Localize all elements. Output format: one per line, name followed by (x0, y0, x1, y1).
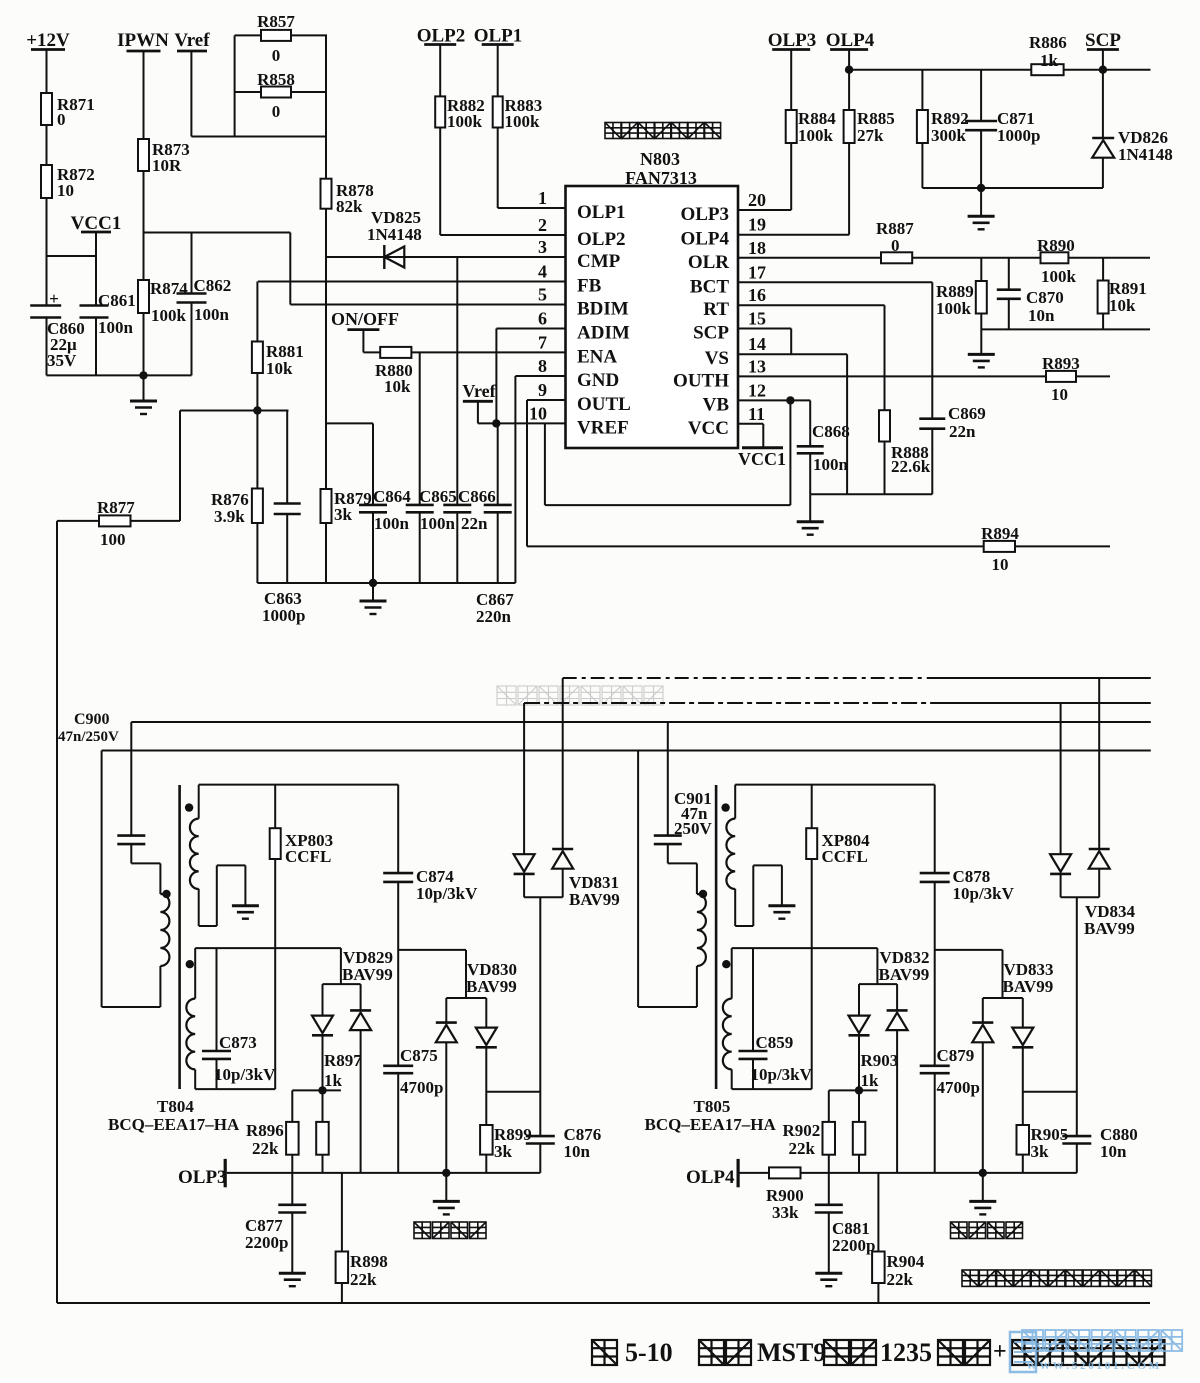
svg-text:4: 4 (538, 262, 547, 282)
svg-text:ADIM: ADIM (577, 323, 630, 344)
svg-text:OLP1: OLP1 (577, 202, 626, 223)
svg-text:R886: R886 (1029, 33, 1067, 52)
svg-text:OLP4: OLP4 (686, 1167, 735, 1188)
svg-text:10: 10 (529, 403, 547, 423)
svg-text:C869: C869 (948, 404, 986, 423)
svg-text:BAV99: BAV99 (342, 965, 393, 984)
svg-text:R877: R877 (97, 498, 135, 517)
svg-text:10p/3kV: 10p/3kV (953, 884, 1015, 903)
svg-text:22k: 22k (887, 1270, 914, 1289)
svg-text:OLR: OLR (688, 252, 729, 273)
svg-text:FB: FB (577, 276, 602, 297)
svg-text:8: 8 (538, 356, 547, 376)
svg-text:10: 10 (1051, 385, 1068, 404)
svg-text:RT: RT (703, 299, 729, 320)
svg-text:C864: C864 (373, 487, 411, 506)
svg-text:R902: R902 (783, 1121, 821, 1140)
svg-text:MST9: MST9 (757, 1338, 826, 1367)
svg-text:C879: C879 (937, 1046, 975, 1065)
svg-text:1: 1 (538, 188, 547, 208)
svg-text:R897: R897 (324, 1051, 362, 1070)
svg-text:1N4148: 1N4148 (367, 225, 422, 244)
svg-text:VS: VS (705, 348, 729, 369)
svg-text:6: 6 (538, 309, 547, 329)
svg-text:SCP: SCP (693, 323, 729, 344)
svg-text:C870: C870 (1026, 288, 1064, 307)
svg-text:9: 9 (538, 380, 547, 400)
svg-text:47n/250V: 47n/250V (58, 729, 119, 745)
svg-text:13: 13 (748, 356, 766, 376)
svg-text:R898: R898 (350, 1252, 388, 1271)
svg-text:BAV99: BAV99 (569, 890, 620, 909)
svg-text:20: 20 (748, 190, 766, 210)
svg-text:R890: R890 (1037, 236, 1075, 255)
svg-text:10p/3kV: 10p/3kV (214, 1065, 276, 1084)
svg-text:3.9k: 3.9k (214, 507, 245, 526)
svg-text:10n: 10n (1028, 306, 1055, 325)
svg-text:OUTH: OUTH (673, 370, 729, 391)
svg-text:0: 0 (891, 236, 900, 255)
svg-text:19: 19 (748, 215, 766, 235)
svg-text:100n: 100n (813, 455, 849, 474)
svg-text:10k: 10k (1109, 296, 1136, 315)
svg-text:C873: C873 (219, 1033, 257, 1052)
svg-text:R894: R894 (981, 524, 1019, 543)
svg-text:10p/3kV: 10p/3kV (751, 1065, 813, 1084)
svg-text:T805: T805 (694, 1097, 731, 1116)
svg-text:W W W . 5 2 0 1 0 1 . C O M: W W W . 5 2 0 1 0 1 . C O M (1026, 1360, 1160, 1372)
svg-text:2: 2 (538, 215, 547, 235)
svg-text:OLP2: OLP2 (577, 229, 626, 250)
svg-text:100k: 100k (447, 112, 483, 131)
svg-text:4700p: 4700p (937, 1078, 980, 1097)
svg-text:C865: C865 (419, 487, 457, 506)
svg-text:22k: 22k (252, 1139, 279, 1158)
svg-text:Vref: Vref (462, 381, 496, 401)
svg-text:250V: 250V (674, 819, 713, 838)
svg-text:1000p: 1000p (997, 126, 1040, 145)
svg-text:T804: T804 (157, 1097, 194, 1116)
svg-text:BAV99: BAV99 (466, 977, 517, 996)
svg-text:OLP3: OLP3 (680, 204, 729, 225)
svg-text:100k: 100k (936, 299, 972, 318)
svg-text:CCFL: CCFL (285, 847, 331, 866)
svg-text:35V: 35V (47, 351, 77, 370)
svg-text:1235: 1235 (880, 1338, 932, 1367)
svg-text:R857: R857 (257, 12, 295, 31)
svg-text:OLP4: OLP4 (826, 30, 875, 51)
svg-text:OLP3: OLP3 (178, 1167, 227, 1188)
svg-text:33k: 33k (772, 1203, 799, 1222)
svg-text:3k: 3k (1031, 1142, 1050, 1161)
svg-text:BAV99: BAV99 (879, 965, 930, 984)
svg-text:10p/3kV: 10p/3kV (416, 884, 478, 903)
svg-text:300k: 300k (931, 126, 967, 145)
svg-text:18: 18 (748, 238, 766, 258)
svg-text:Vref: Vref (174, 30, 210, 51)
svg-text:5: 5 (538, 285, 547, 305)
svg-text:2200p: 2200p (832, 1236, 875, 1255)
svg-text:+12V: +12V (26, 30, 70, 51)
svg-text:22k: 22k (350, 1270, 377, 1289)
svg-text:10: 10 (57, 181, 74, 200)
svg-text:1000p: 1000p (262, 606, 305, 625)
svg-text:100n: 100n (98, 318, 134, 337)
svg-text:0: 0 (57, 110, 66, 129)
svg-text:C868: C868 (812, 422, 850, 441)
svg-text:+: + (993, 1339, 1007, 1365)
svg-text:17: 17 (748, 262, 766, 282)
svg-text:R858: R858 (257, 70, 295, 89)
svg-text:5-10: 5-10 (625, 1338, 673, 1367)
svg-text:100k: 100k (151, 306, 187, 325)
svg-text:16: 16 (748, 285, 766, 305)
svg-text:R874: R874 (150, 279, 188, 298)
svg-text:1k: 1k (861, 1071, 880, 1090)
svg-text:22n: 22n (461, 514, 488, 533)
svg-text:100n: 100n (420, 514, 456, 533)
svg-text:VCC: VCC (688, 418, 729, 439)
svg-text:12: 12 (748, 380, 766, 400)
svg-text:220n: 220n (476, 607, 512, 626)
svg-text:R896: R896 (246, 1121, 284, 1140)
svg-text:ENA: ENA (577, 346, 617, 367)
svg-text:100k: 100k (505, 112, 541, 131)
svg-text:OUTL: OUTL (577, 394, 631, 415)
svg-text:R904: R904 (887, 1252, 925, 1271)
svg-text:BDIM: BDIM (577, 299, 629, 320)
svg-text:OLP3: OLP3 (768, 30, 817, 51)
svg-text:15: 15 (748, 309, 766, 329)
svg-text:0: 0 (272, 46, 281, 65)
svg-text:BCT: BCT (690, 276, 729, 297)
svg-text:CMP: CMP (577, 251, 621, 272)
svg-text:R903: R903 (861, 1051, 899, 1070)
svg-text:0: 0 (272, 102, 281, 121)
svg-text:22.6k: 22.6k (891, 457, 931, 476)
svg-text:22n: 22n (949, 422, 976, 441)
svg-text:10n: 10n (1100, 1142, 1127, 1161)
svg-text:BCQ–EEA17–HA: BCQ–EEA17–HA (645, 1115, 777, 1134)
svg-text:1N4148: 1N4148 (1118, 145, 1173, 164)
svg-text:OLP4: OLP4 (680, 229, 729, 250)
svg-text:CCFL: CCFL (822, 847, 868, 866)
svg-text:22k: 22k (789, 1139, 816, 1158)
svg-text:100k: 100k (1041, 267, 1077, 286)
svg-text:1k: 1k (324, 1071, 343, 1090)
svg-text:GND: GND (577, 370, 619, 391)
svg-text:VREF: VREF (577, 417, 629, 438)
svg-text:C866: C866 (458, 487, 496, 506)
svg-text:FAN7313: FAN7313 (625, 168, 697, 188)
svg-text:3: 3 (538, 237, 547, 257)
svg-text:14: 14 (748, 334, 766, 354)
svg-text:82k: 82k (336, 197, 363, 216)
svg-text:100n: 100n (374, 514, 410, 533)
svg-text:SCP: SCP (1085, 30, 1121, 51)
svg-text:3k: 3k (334, 505, 353, 524)
svg-text:BCQ–EEA17–HA: BCQ–EEA17–HA (108, 1115, 240, 1134)
svg-text:10k: 10k (384, 377, 411, 396)
svg-text:C875: C875 (400, 1046, 438, 1065)
svg-text:100k: 100k (798, 126, 834, 145)
svg-text:VCC1: VCC1 (738, 449, 786, 469)
svg-text:10: 10 (992, 555, 1009, 574)
svg-text:7: 7 (538, 332, 547, 352)
svg-text:VB: VB (703, 394, 730, 415)
svg-text:2200p: 2200p (245, 1233, 288, 1252)
svg-text:100n: 100n (194, 305, 230, 324)
svg-text:4700p: 4700p (400, 1078, 443, 1097)
svg-text:BAV99: BAV99 (1003, 977, 1054, 996)
svg-text:C862: C862 (194, 276, 232, 295)
svg-text:N803: N803 (640, 149, 680, 169)
svg-text:IPWN: IPWN (117, 30, 169, 51)
svg-text:11: 11 (748, 404, 765, 424)
svg-text:ON/OFF: ON/OFF (331, 309, 399, 329)
svg-text:C859: C859 (756, 1033, 794, 1052)
svg-text:10k: 10k (266, 359, 293, 378)
svg-text:1k: 1k (1040, 51, 1059, 70)
svg-text:100: 100 (100, 530, 126, 549)
svg-text:C861: C861 (98, 291, 136, 310)
svg-text:C900: C900 (74, 711, 110, 728)
svg-text:BAV99: BAV99 (1084, 919, 1135, 938)
svg-text:R893: R893 (1042, 354, 1080, 373)
svg-text:10R: 10R (152, 156, 182, 175)
svg-text:3k: 3k (494, 1142, 513, 1161)
svg-text:10n: 10n (564, 1142, 591, 1161)
svg-text:27k: 27k (857, 126, 884, 145)
